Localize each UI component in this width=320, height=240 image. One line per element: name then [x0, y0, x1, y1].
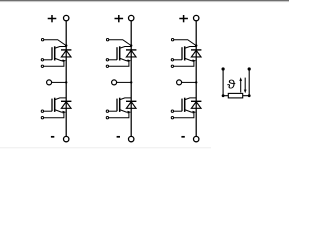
- + label (DC+) leg 1: [48, 15, 57, 22]
- collector aux terminal Q3: [106, 39, 108, 41]
- emitter aux terminal Q2: [41, 117, 43, 119]
- junction dot phase leg 2: [130, 81, 132, 83]
- collector aux terminal Q1: [41, 39, 43, 41]
- top border rule: [0, 0, 289, 1]
- gate terminal Q4: [106, 110, 108, 112]
- gate terminal Q1: [41, 59, 43, 61]
- - label (DC-) leg 2: [117, 136, 120, 138]
- DC- terminal leg 1: [63, 136, 68, 141]
- gate terminal Q2: [41, 110, 43, 112]
- down arrow: [244, 78, 246, 91]
- diode D4 (antiparallel): [126, 101, 136, 108]
- emitter aux terminal Q1: [41, 65, 43, 67]
- diode D1 (antiparallel): [61, 50, 71, 57]
- wire: thermistor left lead: [222, 69, 224, 96]
- junction dot collector Q1: [65, 44, 67, 46]
- DC+ terminal leg 2: [129, 15, 134, 20]
- wire: main rail leg 1: [65, 21, 67, 136]
- DC+ terminal leg 1: [63, 15, 68, 20]
- IGBT Q5: [182, 46, 196, 62]
- IGBT Q1: [52, 46, 66, 62]
- wire: collector aux to rail Q5: [174, 40, 196, 46]
- + label (DC+) leg 2: [115, 15, 124, 22]
- AC phase terminal leg 2: [112, 80, 117, 85]
- DC+ terminal leg 3: [194, 15, 199, 20]
- IGBT Q6: [182, 98, 196, 114]
- IGBT Q2: [52, 98, 66, 114]
- wire: gate Q1: [44, 59, 53, 61]
- wire: emitter aux Q6: [174, 112, 194, 118]
- diode D2 (antiparallel): [61, 101, 71, 108]
- junction dot collector Q5: [195, 44, 197, 46]
- emitter aux terminal Q5: [171, 65, 173, 67]
- wire: emitter aux Q3: [109, 61, 129, 67]
- diode D3 (antiparallel): [126, 50, 136, 57]
- - label (DC-) leg 3: [181, 136, 184, 138]
- DC- terminal leg 2: [129, 136, 134, 141]
- wire: emitter aux Q5: [174, 61, 194, 67]
- emitter aux terminal Q6: [171, 117, 173, 119]
- thermistor terminal dot right: [248, 67, 251, 70]
- junction dot phase leg 3: [195, 81, 197, 83]
- wire: gate Q5: [174, 59, 183, 61]
- up arrow: [240, 80, 242, 93]
- diode D5 (antiparallel): [191, 50, 201, 57]
- junction dot resistor left: [222, 94, 225, 97]
- junction dot resistor right: [248, 94, 251, 97]
- junction dot collector Q3: [130, 44, 132, 46]
- gate terminal Q6: [171, 110, 173, 112]
- emitter aux terminal Q4: [106, 117, 108, 119]
- thermistor terminal dot left: [222, 67, 225, 70]
- wire: main rail leg 3: [195, 21, 197, 136]
- wire: emitter aux Q4: [109, 112, 129, 118]
- collector aux terminal Q5: [171, 39, 173, 41]
- wire: gate Q6: [174, 110, 183, 112]
- wire: phase tap leg 2: [117, 81, 131, 83]
- IGBT Q3: [117, 46, 131, 62]
- IGBT Q4: [117, 98, 131, 114]
- wire: emitter aux Q1: [44, 61, 64, 67]
- AC phase terminal leg 1: [47, 80, 52, 85]
- wire: main rail leg 2: [130, 21, 132, 136]
- resistor body RT: [228, 93, 242, 98]
- theta label: [227, 80, 235, 89]
- wire: gate Q3: [109, 59, 118, 61]
- emitter aux terminal Q3: [106, 65, 108, 67]
- wire: resistor right stub: [243, 95, 250, 97]
- wire: collector aux to rail Q3: [109, 40, 131, 46]
- wire: emitter aux Q2: [44, 112, 64, 118]
- diode D6 (antiparallel): [191, 101, 201, 108]
- wire: phase tap leg 3: [182, 81, 196, 83]
- wire: resistor left stub: [223, 95, 228, 97]
- junction dot phase leg 1: [65, 81, 67, 83]
- AC phase terminal leg 3: [177, 80, 182, 85]
- gate terminal Q5: [171, 59, 173, 61]
- wire: gate Q2: [44, 110, 53, 112]
- wire: phase tap leg 1: [52, 81, 66, 83]
- wire: collector aux to rail Q1: [44, 40, 66, 46]
- - label (DC-) leg 1: [51, 136, 54, 138]
- + label (DC+) leg 3: [179, 15, 188, 22]
- thermistor RT (NTC): [222, 67, 251, 98]
- gate terminal Q3: [106, 59, 108, 61]
- wire: thermistor right lead: [248, 69, 250, 96]
- DC- terminal leg 3: [194, 136, 199, 141]
- bottom faint rule: [0, 147, 211, 148]
- wire: gate Q4: [109, 110, 118, 112]
